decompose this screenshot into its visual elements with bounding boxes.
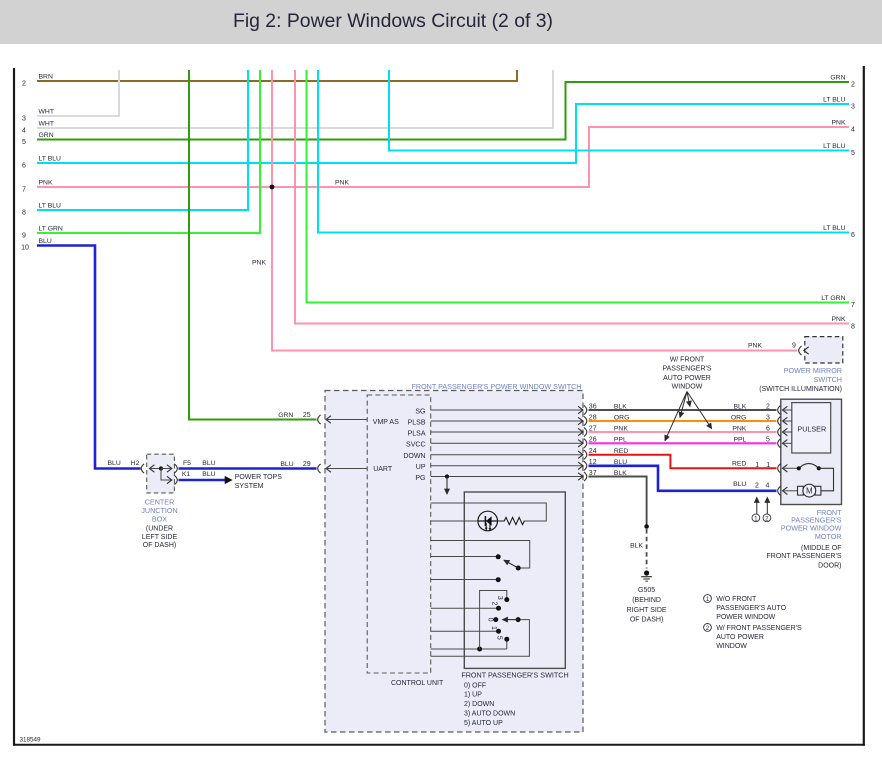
svg-text:CONTROL UNIT: CONTROL UNIT xyxy=(391,680,444,687)
svg-text:4: 4 xyxy=(22,128,26,135)
svg-text:5: 5 xyxy=(22,139,26,146)
svg-text:BLU: BLU xyxy=(733,481,746,488)
arrow to power tops system xyxy=(225,476,233,484)
drawing area left border xyxy=(13,68,15,746)
5-position switch contact 1 row xyxy=(431,626,501,634)
svg-text:2: 2 xyxy=(491,602,498,606)
svg-text:DOOR): DOOR) xyxy=(818,562,841,569)
svg-text:PNK: PNK xyxy=(335,180,349,187)
svg-text:2: 2 xyxy=(755,483,759,490)
svg-text:PNK: PNK xyxy=(748,343,762,350)
svg-text:PNK: PNK xyxy=(39,180,53,187)
svg-text:(UNDER: (UNDER xyxy=(146,526,173,533)
splice dot on BLK ground wire xyxy=(644,524,649,529)
switch lamp feed line (top branch) xyxy=(431,503,547,521)
svg-text:POWER MIRROR: POWER MIRROR xyxy=(784,366,842,375)
svg-text:JUNCTION: JUNCTION xyxy=(141,506,177,515)
svg-text:0) OFF: 0) OFF xyxy=(464,682,486,689)
svg-text:3: 3 xyxy=(22,116,26,123)
svg-text:28: 28 xyxy=(589,414,597,421)
switch lamp return line xyxy=(431,520,478,522)
wire PPL pin 26 to motor 5 xyxy=(589,437,777,444)
svg-text:6: 6 xyxy=(766,425,770,432)
svg-text:BLU: BLU xyxy=(202,471,215,478)
svg-text:Fig 2: Power Windows Circuit (: Fig 2: Power Windows Circuit (2 of 3) xyxy=(233,10,553,32)
svg-text:PNK: PNK xyxy=(732,425,746,432)
wire ORG pin 28 to motor 3 xyxy=(589,414,777,421)
motor connector pin 4 xyxy=(778,486,798,495)
junction dot inside center junction box xyxy=(159,466,163,470)
wire PNK riser x295 to right 8 xyxy=(295,70,855,331)
svg-text:SYSTEM: SYSTEM xyxy=(235,483,264,490)
svg-text:GRN: GRN xyxy=(830,75,845,82)
svg-text:3) AUTO DOWN: 3) AUTO DOWN xyxy=(464,711,515,718)
svg-text:PG: PG xyxy=(415,475,425,482)
svg-text:PLSB: PLSB xyxy=(408,420,426,427)
svg-text:LT BLU: LT BLU xyxy=(39,203,62,210)
svg-text:LT BLU: LT BLU xyxy=(39,156,62,163)
note arrow to PPL wire xyxy=(665,392,687,441)
svg-text:GRN: GRN xyxy=(39,132,54,139)
svg-text:BLU: BLU xyxy=(108,460,121,467)
svg-text:BLK: BLK xyxy=(614,403,627,410)
wire GRN riser x189 to pin 25 xyxy=(189,70,317,420)
wire WHT (left 4) xyxy=(22,70,553,135)
svg-text:CENTER: CENTER xyxy=(145,497,175,506)
svg-text:5: 5 xyxy=(851,150,855,157)
svg-text:W/O FRONT: W/O FRONT xyxy=(716,596,757,603)
switch upper contact feed (row C) xyxy=(431,541,530,569)
svg-text:1: 1 xyxy=(706,596,710,603)
svg-text:2: 2 xyxy=(22,81,26,88)
svg-text:DOWN: DOWN xyxy=(403,453,425,460)
svg-text:2: 2 xyxy=(765,515,769,522)
svg-text:5: 5 xyxy=(495,636,502,640)
svg-text:(BEHIND: (BEHIND xyxy=(632,597,661,604)
svg-text:FRONT PASSENGER'S POWER WINDOW: FRONT PASSENGER'S POWER WINDOW SWITCH xyxy=(411,382,581,391)
wire BLK pin 37 to ground splice xyxy=(589,470,647,527)
motor commutator arc xyxy=(797,463,834,490)
illumination resistor xyxy=(498,517,525,524)
svg-text:LT BLU: LT BLU xyxy=(823,143,846,150)
junction dot on PNK wire 7 xyxy=(270,185,275,190)
solid box: front passenger's switch xyxy=(464,492,565,668)
svg-text:OF DASH): OF DASH) xyxy=(630,617,663,624)
svg-text:PLSA: PLSA xyxy=(408,431,426,438)
svg-text:BLU: BLU xyxy=(202,460,215,467)
bracket to contact 3 xyxy=(480,591,510,650)
solid box: front passenger's power window motor xyxy=(781,399,842,504)
svg-text:6: 6 xyxy=(22,163,26,170)
svg-text:24: 24 xyxy=(589,448,597,455)
svg-text:PPL: PPL xyxy=(614,437,627,444)
motor M symbol xyxy=(798,484,821,497)
svg-text:BLU: BLU xyxy=(280,461,293,468)
svg-text:2: 2 xyxy=(851,82,855,89)
svg-text:WINDOW: WINDOW xyxy=(672,384,703,391)
svg-text:LT GRN: LT GRN xyxy=(821,295,845,302)
svg-text:5) AUTO UP: 5) AUTO UP xyxy=(464,720,503,727)
dashed BLK wire to G505 xyxy=(630,529,646,569)
svg-text:LT BLU: LT BLU xyxy=(823,97,846,104)
drawing area right border xyxy=(863,66,865,746)
svg-text:MOTOR: MOTOR xyxy=(815,532,842,541)
ground G505 xyxy=(627,570,667,623)
svg-text:2: 2 xyxy=(706,625,710,632)
svg-text:5: 5 xyxy=(766,437,770,444)
svg-text:WINDOW: WINDOW xyxy=(716,643,747,650)
wire LT BLU riser x318 to right 6 xyxy=(318,70,855,239)
svg-text:G505: G505 xyxy=(638,587,655,594)
svg-text:26: 26 xyxy=(589,437,597,444)
wire LT BLU riser x389 to right 5 xyxy=(389,70,855,157)
svg-text:37: 37 xyxy=(589,470,597,477)
svg-text:W/ FRONT PASSENGER'S: W/ FRONT PASSENGER'S xyxy=(716,625,802,632)
switch upper contact D (row) xyxy=(431,554,501,559)
dashed box: power mirror switch xyxy=(805,337,843,363)
svg-text:25: 25 xyxy=(303,412,311,419)
svg-text:36: 36 xyxy=(589,403,597,410)
svg-text:6: 6 xyxy=(851,232,855,239)
svg-text:12: 12 xyxy=(589,459,597,466)
wire PNK riser x272 to power mirror switch xyxy=(252,70,797,351)
switch upper lever xyxy=(504,560,521,570)
svg-text:ORG: ORG xyxy=(614,414,629,421)
footnote 1 W/O front passenger's auto power window xyxy=(704,595,787,622)
svg-text:WHT: WHT xyxy=(39,109,54,116)
wire PNK (left 7 to right 4) xyxy=(22,120,855,194)
outer dashed box: front passenger's power window switch xyxy=(325,391,583,733)
wire PNK pin 27 to motor 6 xyxy=(589,425,777,432)
svg-text:M: M xyxy=(806,487,813,496)
svg-text:UP: UP xyxy=(416,464,426,471)
svg-text:BLK: BLK xyxy=(614,470,627,477)
svg-text:FRONT PASSENGER'S SWITCH: FRONT PASSENGER'S SWITCH xyxy=(461,670,568,679)
connector pin 25 at switch box edge xyxy=(318,415,368,424)
wire BLU K1 to power tops system xyxy=(179,471,226,480)
svg-text:8: 8 xyxy=(851,324,855,331)
svg-text:PULSER: PULSER xyxy=(797,425,826,434)
footnote 2 W/ front passenger's auto power window xyxy=(704,624,802,650)
svg-text:9: 9 xyxy=(22,233,26,240)
wire BLK pin 36 to motor 2 xyxy=(589,403,777,410)
contact 0 dot xyxy=(487,617,499,622)
svg-text:9: 9 xyxy=(792,343,796,350)
svg-text:OF DASH): OF DASH) xyxy=(143,542,176,549)
5-position common line xyxy=(431,620,530,657)
svg-text:PNK: PNK xyxy=(832,120,846,127)
svg-text:(MIDDLE OF: (MIDDLE OF xyxy=(801,545,841,552)
svg-text:4: 4 xyxy=(765,483,769,490)
svg-text:BOX: BOX xyxy=(152,515,167,524)
motor label xyxy=(767,508,843,570)
5-position switch contact 2 row xyxy=(431,602,501,611)
motor connector pin 6 xyxy=(778,427,792,436)
pin name labels SG PLSB PLSA SVCC DOWN UP PG xyxy=(403,409,425,482)
wire BLU F5 to pin 29 xyxy=(179,460,317,469)
svg-text:PPL: PPL xyxy=(733,437,746,444)
CJB internal branch to F5 xyxy=(161,468,172,470)
svg-text:FRONT PASSENGER'S: FRONT PASSENGER'S xyxy=(767,553,842,560)
motor connector pin 2 xyxy=(778,405,792,414)
svg-text:3: 3 xyxy=(851,104,855,111)
note arrow to PNK wire xyxy=(687,392,712,429)
svg-text:PNK: PNK xyxy=(614,425,628,432)
CJB internal branch to K1 xyxy=(161,469,172,481)
pin line UP 12 xyxy=(431,461,587,470)
pin line SVCC 26 xyxy=(431,439,587,448)
connector K1 xyxy=(167,471,190,485)
dashed box: center junction box xyxy=(147,454,175,493)
svg-text:3: 3 xyxy=(496,596,503,600)
note W/ FRONT PASSENGER'S AUTO POWER WINDOW xyxy=(662,356,711,390)
pin line PLSB 28 xyxy=(431,416,587,425)
switch upper contact E (row) xyxy=(431,577,501,582)
svg-text:8: 8 xyxy=(22,210,26,217)
power mirror switch label xyxy=(759,366,842,393)
svg-text:BLK: BLK xyxy=(630,543,643,550)
PG tap junction dot xyxy=(445,474,449,478)
svg-text:H2: H2 xyxy=(131,460,140,467)
svg-text:LT BLU: LT BLU xyxy=(823,225,846,232)
svg-text:PASSENGER'S AUTO: PASSENGER'S AUTO xyxy=(716,605,786,612)
power mirror switch connector xyxy=(799,346,809,355)
PG ground arrow xyxy=(446,477,448,495)
svg-text:7: 7 xyxy=(22,187,26,194)
svg-text:POWER TOPS: POWER TOPS xyxy=(235,474,283,481)
svg-text:RIGHT SIDE: RIGHT SIDE xyxy=(627,607,667,614)
illumination lamp xyxy=(478,511,498,531)
svg-text:10: 10 xyxy=(21,245,29,252)
svg-text:27: 27 xyxy=(589,425,597,432)
wire LT BLU (left 6 to right 3) xyxy=(22,97,855,170)
note arrow to BLK wire xyxy=(687,392,690,407)
drawing area bottom border xyxy=(13,744,865,746)
option arrows 1 2 below motor xyxy=(752,498,771,523)
motor connector pin 1 xyxy=(778,464,799,473)
header bar xyxy=(0,0,882,44)
svg-text:VMP AS: VMP AS xyxy=(373,419,399,426)
svg-text:2: 2 xyxy=(766,403,770,410)
svg-text:LEFT SIDE: LEFT SIDE xyxy=(142,534,178,541)
svg-text:4: 4 xyxy=(851,127,855,134)
svg-text:WHT: WHT xyxy=(39,121,54,128)
svg-text:1) UP: 1) UP xyxy=(464,692,482,699)
svg-text:RED: RED xyxy=(614,448,628,455)
5-position switch auto row (3 and 5) xyxy=(431,647,507,652)
wire WHT (left 3) xyxy=(22,70,119,123)
svg-text:K1: K1 xyxy=(182,471,191,478)
svg-text:BLU: BLU xyxy=(39,238,52,245)
svg-text:ORG: ORG xyxy=(731,414,746,421)
wire BLU pin 12 to motor 4 xyxy=(589,459,777,491)
note arrow to ORG wire xyxy=(680,392,687,418)
svg-text:LT GRN: LT GRN xyxy=(39,226,63,233)
svg-text:BLU: BLU xyxy=(614,459,627,466)
svg-text:PASSENGER'S: PASSENGER'S xyxy=(662,365,711,372)
connector F5 xyxy=(167,460,191,473)
svg-text:AUTO POWER: AUTO POWER xyxy=(716,634,764,641)
svg-text:1: 1 xyxy=(766,462,770,469)
pin line SG 36 xyxy=(431,405,587,414)
svg-text:UART: UART xyxy=(373,466,393,473)
svg-text:SWITCH: SWITCH xyxy=(814,375,842,384)
contact 5 stub xyxy=(495,636,509,649)
switch position list xyxy=(464,682,515,727)
wire LT BLU (left 8, riser x248) xyxy=(22,70,248,217)
svg-text:318549: 318549 xyxy=(20,737,42,744)
center junction box label xyxy=(141,497,177,549)
svg-text:F5: F5 xyxy=(183,460,191,467)
svg-text:RED: RED xyxy=(732,460,746,467)
connector pin 29 at switch box edge xyxy=(318,464,368,473)
svg-text:GRN: GRN xyxy=(278,412,293,419)
svg-text:(SWITCH ILLUMINATION): (SWITCH ILLUMINATION) xyxy=(759,386,842,393)
svg-text:PNK: PNK xyxy=(832,316,846,323)
svg-text:1: 1 xyxy=(754,515,758,522)
5-position lever arrow xyxy=(503,617,521,622)
svg-text:3: 3 xyxy=(766,414,770,421)
motor connector pin 5 xyxy=(778,439,792,448)
solid box: pulser xyxy=(792,403,831,453)
inner dashed box: control unit xyxy=(367,395,431,673)
motor connector pin 3 xyxy=(778,416,792,425)
wire LT GRN (left 9, riser x260) xyxy=(22,70,260,240)
pin line PG 37 xyxy=(431,472,587,481)
svg-text:SVCC: SVCC xyxy=(406,442,425,449)
svg-text:2) DOWN: 2) DOWN xyxy=(464,701,494,708)
wire LT GRN riser x306.5 to right 7 xyxy=(307,70,856,309)
wire BLU (left 10 to CJB H2) xyxy=(21,238,140,469)
wire BRN (left 2) xyxy=(22,70,517,88)
svg-text:BLK: BLK xyxy=(733,403,746,410)
svg-text:29: 29 xyxy=(303,461,311,468)
pin line DOWN 24 xyxy=(431,450,587,459)
svg-text:W/ FRONT: W/ FRONT xyxy=(670,356,705,363)
svg-text:0: 0 xyxy=(487,618,494,622)
svg-text:BRN: BRN xyxy=(39,74,53,81)
wire RED pin 24 to motor 1 xyxy=(589,448,777,469)
svg-text:POWER WINDOW: POWER WINDOW xyxy=(716,614,775,621)
svg-text:PNK: PNK xyxy=(252,260,266,267)
svg-text:7: 7 xyxy=(851,302,855,309)
pin line PLSA 27 xyxy=(431,427,587,436)
wire GRN (left 5 to right 2) xyxy=(22,75,855,147)
svg-text:1: 1 xyxy=(490,626,497,630)
svg-text:1: 1 xyxy=(755,462,759,469)
connector H2 at center junction box xyxy=(141,464,161,473)
svg-text:SG: SG xyxy=(415,409,425,416)
svg-text:AUTO POWER: AUTO POWER xyxy=(663,375,711,382)
